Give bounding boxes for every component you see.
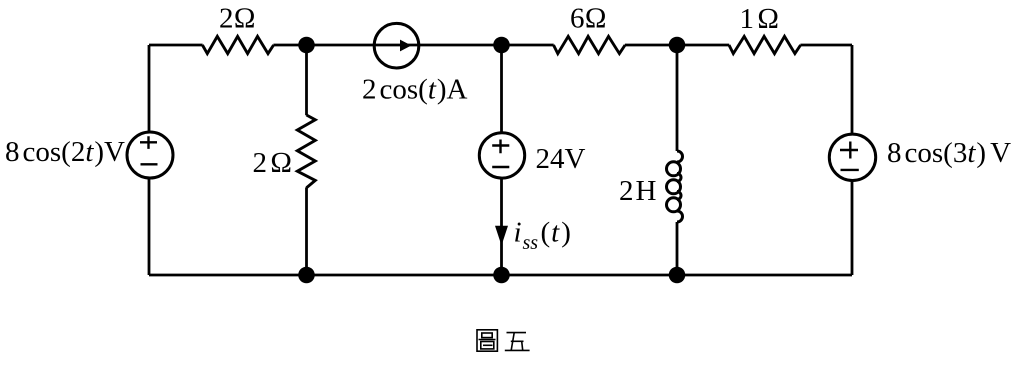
caption Chinese "Figure 5" drawn as strokes <box>477 330 530 351</box>
node A junction dot <box>298 37 315 54</box>
svg-text:(t): (t) <box>541 217 571 249</box>
resistor R1 2ohm top-left zigzag <box>202 36 273 53</box>
node D junction dot (bottom middle-left) <box>298 267 315 284</box>
wire: bottom rail <box>149 274 852 277</box>
inductor L1 2H coil <box>667 151 683 222</box>
svg-text:2Ω: 2Ω <box>219 3 256 35</box>
V2 plus sign <box>492 140 509 154</box>
wire: through current source <box>376 44 554 47</box>
svg-text:1Ω: 1Ω <box>740 3 780 35</box>
svg-text:2H: 2H <box>619 175 657 207</box>
wire: top rail left segment (corner to resistor R1) <box>149 44 203 47</box>
svg-text:24V: 24V <box>536 143 586 175</box>
caption glyph TU (figure) <box>477 330 497 351</box>
wire: top rail node B to resistor R4 <box>625 44 729 47</box>
wire: middle branch R2 down to bottom rail <box>305 187 308 275</box>
svg-text:2Ω: 2Ω <box>253 147 293 179</box>
resistor R4 1ohm zigzag <box>729 36 801 53</box>
svg-text:ss: ss <box>523 232 539 254</box>
wire: right branch vertical bottom <box>851 180 854 275</box>
wire: top rail R1 to node A <box>273 44 376 47</box>
wire: top rail R4 to top-right corner <box>800 44 852 47</box>
wire: left branch vertical bottom <box>148 178 151 275</box>
voltage source V2 24V circle <box>479 133 524 178</box>
V2 minus sign <box>492 166 509 168</box>
resistor R3 6ohm zigzag <box>554 36 626 53</box>
wire: middle branch from node A down to resistor R2 <box>305 45 308 115</box>
svg-text:8cos(2t)V: 8cos(2t)V <box>5 136 125 168</box>
wire: left branch vertical top <box>148 45 151 132</box>
resistor R2 2ohm vertical zigzag <box>297 115 315 188</box>
svg-text:i: i <box>514 217 522 249</box>
V3 minus sign <box>841 169 859 171</box>
svg-text:6Ω: 6Ω <box>570 3 607 35</box>
wire: branch from node B down to 24V source <box>500 45 503 133</box>
current source I1 circle <box>374 23 419 68</box>
V1 plus sign <box>140 136 157 149</box>
iss(t) arrowhead <box>495 226 508 246</box>
node C junction dot <box>669 37 686 54</box>
V1 minus sign <box>141 163 158 165</box>
wire: branch from node C down to inductor <box>676 45 679 151</box>
node B junction dot <box>493 37 510 54</box>
node F junction dot (bottom middle-right) <box>669 267 686 284</box>
wire: inductor down to bottom rail <box>676 222 679 275</box>
V3 plus sign <box>840 142 858 159</box>
voltage source V3 circle <box>829 134 875 180</box>
current source I1 arrowhead <box>400 40 411 52</box>
voltage source V1 circle <box>127 132 173 178</box>
wire: right branch vertical top <box>851 45 854 134</box>
node E junction dot (bottom middle) <box>493 267 510 284</box>
wire: V2 down to bottom rail with iss arrow <box>500 178 503 275</box>
caption glyph WU (five) <box>507 332 527 334</box>
svg-text:8cos(3t)V: 8cos(3t)V <box>887 137 1011 169</box>
